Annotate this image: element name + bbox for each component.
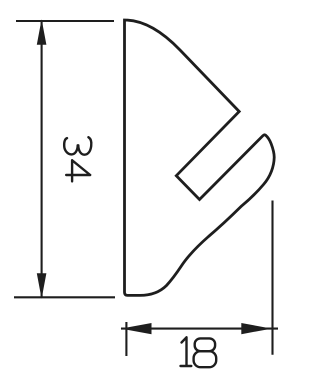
arrowhead right xyxy=(241,323,271,334)
label 34 (rotated) xyxy=(64,137,91,181)
arrowhead left xyxy=(121,323,152,334)
arrowhead down xyxy=(37,273,47,299)
extension line left (18) xyxy=(125,322,127,356)
label 18 xyxy=(181,337,217,367)
arrowhead up xyxy=(37,19,47,45)
extension line top (34) xyxy=(16,20,114,22)
extension line right (18) xyxy=(271,201,273,355)
profile outline xyxy=(125,20,275,295)
extension line bottom (34) xyxy=(14,296,115,298)
dimension line 34 xyxy=(41,21,43,298)
dimension line 18 xyxy=(121,328,278,330)
